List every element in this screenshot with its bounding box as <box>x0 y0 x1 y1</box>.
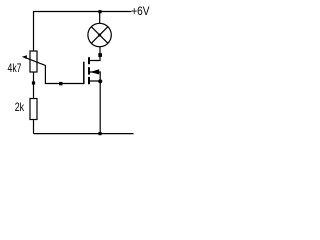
svg-text:2k: 2k <box>15 100 25 114</box>
svg-text:+6V: +6V <box>131 4 149 18</box>
svg-text:4k7: 4k7 <box>8 61 22 75</box>
